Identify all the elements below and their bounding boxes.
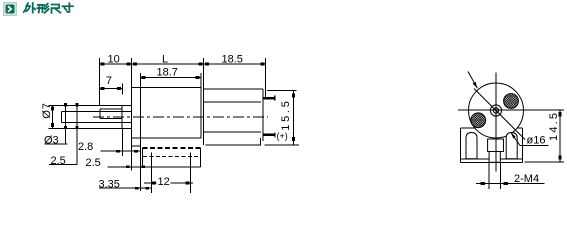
svg-text:(+): (+): [277, 131, 288, 141]
svg-text:14.5: 14.5: [548, 111, 560, 141]
svg-text:7: 7: [106, 75, 112, 87]
svg-text:L: L: [162, 54, 168, 66]
svg-text:10: 10: [108, 54, 120, 66]
svg-text:2-M4: 2-M4: [514, 173, 539, 185]
svg-text:2.8: 2.8: [78, 141, 93, 153]
svg-text:15.5: 15.5: [280, 98, 292, 130]
svg-text:2.5: 2.5: [86, 157, 101, 169]
svg-text:ø16: ø16: [527, 135, 546, 147]
svg-text:Ø7: Ø7: [41, 102, 53, 118]
svg-text:Ø3: Ø3: [44, 135, 59, 147]
svg-text:3.35: 3.35: [99, 179, 120, 191]
svg-text:18.7: 18.7: [157, 66, 178, 78]
svg-text:2.5: 2.5: [51, 155, 66, 167]
svg-text:18.5: 18.5: [222, 54, 243, 66]
svg-text:12: 12: [158, 176, 170, 188]
